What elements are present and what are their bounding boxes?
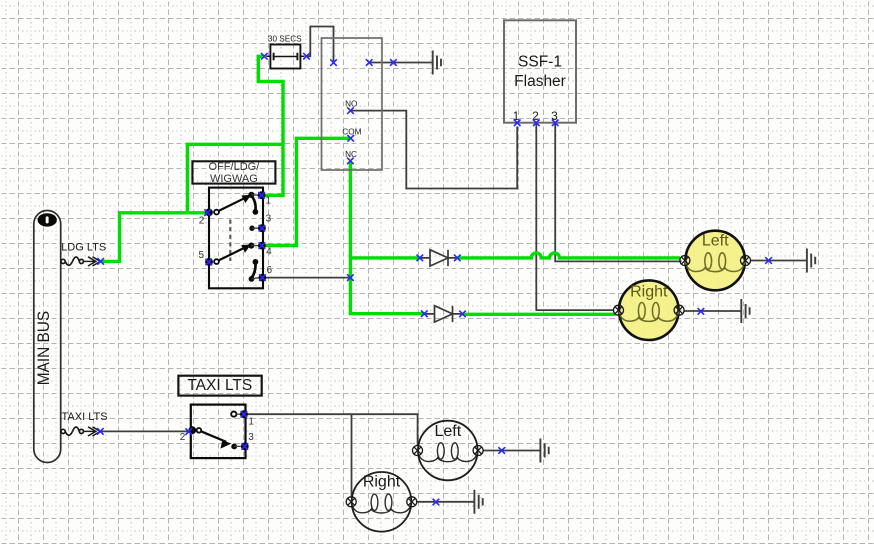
svg-text:SSF-1: SSF-1 [518,54,562,71]
svg-text:Flasher: Flasher [514,73,566,90]
svg-text:1: 1 [265,196,271,207]
svg-text:6: 6 [267,265,273,276]
svg-text:WIGWAG: WIGWAG [210,173,258,185]
svg-text:Right: Right [630,284,668,301]
svg-text:30 SECS: 30 SECS [268,35,302,44]
svg-text:Left: Left [434,423,461,440]
svg-text:TAXI LTS: TAXI LTS [187,377,252,394]
svg-text:MAIN BUS: MAIN BUS [34,311,53,386]
svg-text:5: 5 [199,250,205,261]
svg-text:OFF/LDG/: OFF/LDG/ [209,161,261,173]
svg-text:NC: NC [345,150,357,159]
svg-text:3: 3 [248,432,254,443]
svg-text:2: 2 [199,215,205,226]
svg-text:1: 1 [248,417,254,428]
svg-text:LDG LTS: LDG LTS [61,241,106,253]
svg-text:Right: Right [363,474,401,491]
svg-text:COM: COM [342,127,361,136]
svg-text:NO: NO [345,100,357,109]
svg-text:TAXI LTS: TAXI LTS [62,411,108,423]
svg-text:Left: Left [702,233,729,250]
svg-text:2: 2 [180,432,186,443]
svg-text:3: 3 [266,214,272,225]
svg-text:4: 4 [266,246,272,257]
